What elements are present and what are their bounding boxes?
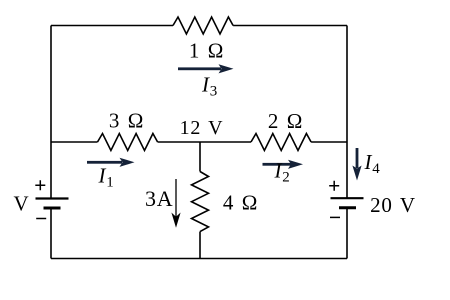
svg-text:2 Ω: 2 Ω [268,109,303,133]
wire middle-left segment [51,141,98,143]
resistor 4 ohm [192,172,209,232]
resistor 1 ohm [173,17,233,34]
node 12V center vertical wire upper [199,142,201,172]
svg-text:V: V [14,192,30,216]
battery V1 short plate [44,207,61,210]
svg-text:4 Ω: 4 Ω [223,191,258,215]
battery V2 long plate [331,197,364,199]
wire right vertical lower [346,208,348,259]
battery V1 long plate [36,197,69,199]
svg-text:3 Ω: 3 Ω [109,109,144,133]
wire top-left segment [51,25,173,27]
svg-text:1 Ω: 1 Ω [189,39,224,63]
wire left vertical lower [50,208,52,259]
svg-text:20 V: 20 V [370,193,416,217]
battery V2 plus sign [329,181,339,191]
resistor 2 ohm [251,134,311,151]
3A current arrow [171,179,180,228]
battery V1 plus sign [35,180,45,190]
current arrow I3 [178,64,234,73]
wire middle-center segment [158,141,251,143]
wire center vertical lower [199,232,201,259]
current arrow I4 [352,148,361,181]
svg-text:3A: 3A [145,186,174,211]
wire left vertical upper [50,26,52,199]
wire top-right segment [233,25,347,27]
svg-text:12 V: 12 V [180,117,224,139]
battery V2 minus sign [330,216,340,218]
current arrow I1 [87,158,135,167]
battery V2 short plate [339,206,356,209]
wire right vertical upper [346,26,348,199]
wire bottom [51,258,347,260]
battery V1 minus sign [36,218,46,220]
current arrow I2 [263,160,304,169]
wire middle-right segment [311,141,347,143]
resistor 3 ohm [98,134,158,151]
